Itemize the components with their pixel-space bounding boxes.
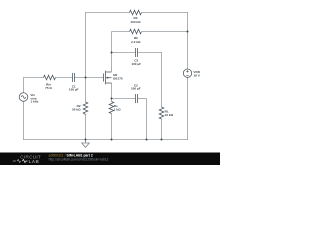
capacitor C3 xyxy=(135,48,137,57)
node junction at ground bus RL xyxy=(161,139,163,141)
transistor M1 source stub xyxy=(106,82,112,84)
wire C3 row left xyxy=(112,52,136,54)
wire top rail left segment xyxy=(23,12,188,140)
node junction at ground bus R2 xyxy=(85,139,87,141)
wire ground bus xyxy=(23,139,188,141)
resistor R3 xyxy=(130,10,142,15)
transistor M1 channel bar xyxy=(105,71,107,85)
wire RL column top xyxy=(161,52,163,107)
svg-text:100 kΩ: 100 kΩ xyxy=(130,20,141,24)
wire top rail right segment xyxy=(142,12,188,14)
wire left bias column xyxy=(85,12,87,102)
wire C2 right segment xyxy=(138,98,147,100)
svg-text:100 µF: 100 µF xyxy=(69,88,79,92)
ground symbol xyxy=(82,140,90,148)
wire Vin column top xyxy=(23,77,25,93)
svg-text:50 kΩ: 50 kΩ xyxy=(72,108,81,112)
capacitor C1 xyxy=(72,73,74,82)
node junction at gate bias xyxy=(85,77,87,79)
svg-text:BS170: BS170 xyxy=(113,76,123,80)
voltage source VDD plus sign xyxy=(186,70,188,75)
node junction at ground bus Rs xyxy=(111,139,113,141)
resistor RL xyxy=(159,107,164,119)
wire RL bottom to ground xyxy=(161,119,163,140)
wire source node row xyxy=(112,98,136,100)
svg-text:100 µF: 100 µF xyxy=(131,62,141,66)
wire MOSFET source to node xyxy=(111,83,113,102)
transistor M1 drain stub xyxy=(106,71,112,73)
resistor Rin xyxy=(44,75,56,80)
wire C1 to gate xyxy=(75,77,104,79)
svg-text:100 µF: 100 µF xyxy=(131,87,141,91)
node junction at ground bus C2 xyxy=(146,139,148,141)
wire right rail upper xyxy=(187,12,189,69)
wire Rs bottom to ground xyxy=(111,114,113,140)
wire Rin to C1 xyxy=(56,77,73,79)
capacitor C2 xyxy=(135,94,137,103)
wire right rail lower xyxy=(187,77,189,139)
transistor M1 gate bar xyxy=(103,73,105,81)
wire input row Vin to Rin xyxy=(24,77,44,79)
footer CircuitLab logo xyxy=(13,154,109,164)
voltage source VDD minus sign xyxy=(186,75,188,77)
svg-text:2.2 kΩ: 2.2 kΩ xyxy=(131,40,141,44)
node junction at source xyxy=(111,98,113,100)
transistor M1 body stub xyxy=(106,77,112,79)
voltage source VDD circle xyxy=(183,69,191,77)
transistor M1 body arrow xyxy=(106,77,108,79)
node junction at right rail R0 xyxy=(187,31,189,33)
svg-text:http://circuitlab.com/c/nds129: http://circuitlab.com/c/nds1296/sim-lab1… xyxy=(49,157,109,161)
svg-text:75 Ω: 75 Ω xyxy=(45,86,52,90)
resistor Rs xyxy=(109,102,114,114)
wire Vin column bottom xyxy=(23,101,25,140)
wire R0 row left xyxy=(112,31,130,33)
svg-text:18 V: 18 V xyxy=(193,73,200,77)
voltage source Vin sine xyxy=(21,96,26,99)
svg-text:10 kΩ: 10 kΩ xyxy=(165,113,174,117)
svg-text:1 kHz: 1 kHz xyxy=(30,99,39,103)
wire C2 column to ground xyxy=(146,99,148,140)
svg-text:LAB: LAB xyxy=(29,159,40,164)
wire R0 row right xyxy=(142,31,188,33)
wire C3 row right xyxy=(138,52,162,54)
resistor R0 xyxy=(130,29,142,34)
wire R2 bottom to ground xyxy=(85,115,87,140)
resistor R2 xyxy=(83,102,88,115)
wire drain column xyxy=(111,32,113,72)
svg-text:1 kΩ: 1 kΩ xyxy=(114,108,121,112)
footer bar xyxy=(0,153,220,166)
node junction at drain C3 tap xyxy=(111,52,113,54)
voltage source Vin circle xyxy=(19,93,28,102)
